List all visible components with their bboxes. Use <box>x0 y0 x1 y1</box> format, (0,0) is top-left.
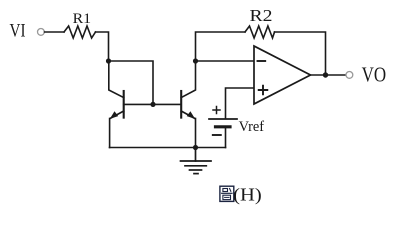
wire R2 to output node <box>275 32 326 75</box>
terminal VO <box>346 72 353 79</box>
transistor Q2 <box>153 61 196 148</box>
wire node A to base node <box>109 61 154 104</box>
wire non-inverting input to Vref <box>226 88 255 118</box>
wire node C up to R2 <box>196 32 246 61</box>
node C (Q2 collector / R2 / inverting input) <box>193 58 198 63</box>
terminal VI <box>38 29 45 36</box>
resistor R1 <box>64 26 96 38</box>
resistor R2 <box>245 26 275 38</box>
ground <box>181 148 212 174</box>
battery Vref <box>209 107 237 148</box>
op-amp U1 <box>254 46 311 104</box>
svg-text:R2: R2 <box>250 6 273 25</box>
wire op-amp output <box>311 74 347 76</box>
wire VI to R1 <box>45 31 64 33</box>
svg-text:R1: R1 <box>73 11 92 27</box>
wire emitters to battery (bottom rail) <box>110 147 226 149</box>
transistor Q1 <box>109 61 150 148</box>
wire R1 to node A <box>96 32 109 61</box>
svg-text:VO: VO <box>362 62 387 86</box>
node B (base junction Q1/Q2) <box>150 102 155 107</box>
node E (ground junction) <box>193 145 198 150</box>
node A (R1 / Q1 collector / Q1 base tie) <box>106 58 111 63</box>
caption 圖(H) <box>220 185 262 206</box>
wire node C to inverting input <box>196 60 255 62</box>
svg-text:Vref: Vref <box>239 119 265 135</box>
svg-text:VI: VI <box>10 21 26 41</box>
svg-text:(H): (H) <box>233 185 262 206</box>
node D (output / feedback) <box>323 72 328 77</box>
